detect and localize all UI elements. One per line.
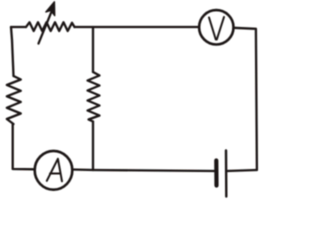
voltmeter letter V (209, 17, 224, 40)
node junction top of middle branch (92, 27, 94, 72)
wire bottom from battery to junction (93, 170, 214, 171)
rheostat arrowhead (46, 2, 55, 16)
wire middle branch bottom (92, 122, 94, 171)
ammeter letter A (47, 159, 62, 182)
wire left vertical (11, 27, 14, 76)
wire top-right (234, 28, 257, 170)
wire top-left horizontal (11, 26, 26, 28)
resistor middle zigzag (88, 72, 100, 122)
wire top middle (75, 26, 199, 28)
battery short thick plate (214, 161, 218, 186)
battery long plate (225, 151, 228, 197)
voltmeter V circle (199, 10, 233, 44)
resistor left zigzag (7, 76, 21, 124)
ammeter A circle (35, 151, 73, 190)
wire bottom ammeter to junction (72, 168, 93, 171)
wire bottom-left (13, 124, 35, 169)
rheostat arrow shaft (39, 8, 54, 44)
wire right to battery (227, 170, 257, 171)
rheostat zigzag (26, 22, 75, 31)
